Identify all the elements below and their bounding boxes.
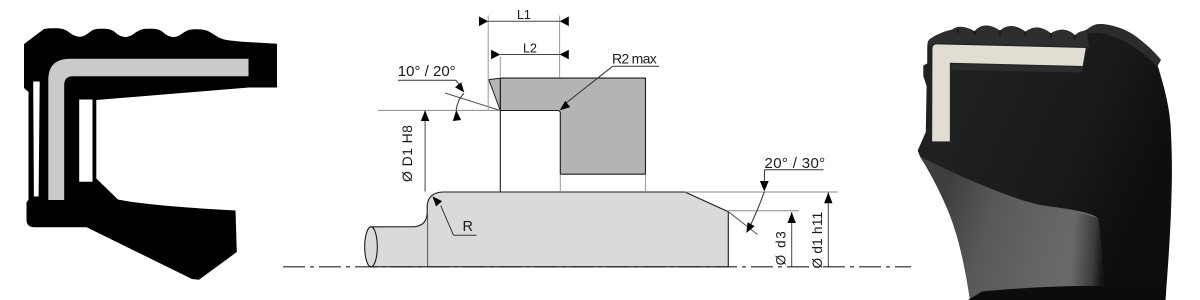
- svg-text:R: R: [463, 219, 473, 235]
- svg-text:10° / 20°: 10° / 20°: [398, 63, 456, 80]
- svg-text:Ø d3: Ø d3: [774, 230, 789, 266]
- svg-text:Ø d1 h11: Ø d1 h11: [810, 212, 825, 269]
- svg-text:Ø D1 H8: Ø D1 H8: [399, 125, 415, 182]
- svg-text:L2: L2: [523, 41, 537, 55]
- svg-text:L1: L1: [517, 8, 531, 22]
- svg-text:R2 max: R2 max: [612, 51, 657, 67]
